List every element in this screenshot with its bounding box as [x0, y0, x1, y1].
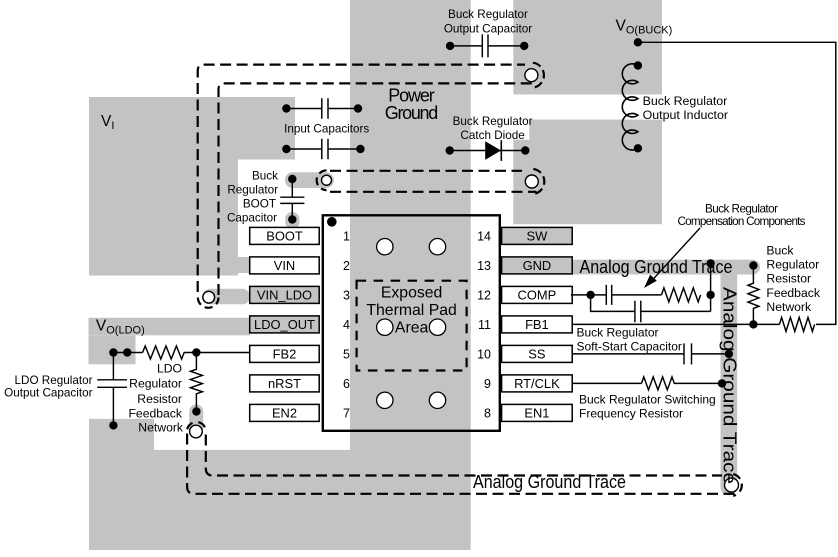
svg-text:FB2: FB2 — [273, 347, 297, 362]
svg-text:Analog Ground Trace: Analog Ground Trace — [580, 257, 733, 277]
svg-text:7: 7 — [343, 406, 350, 420]
svg-text:13: 13 — [477, 259, 491, 273]
svg-text:Buck Regulator: Buck Regulator — [453, 115, 533, 128]
svg-text:6: 6 — [343, 377, 350, 391]
svg-text:Thermal Pad: Thermal Pad — [366, 302, 456, 319]
svg-text:Resistor: Resistor — [766, 272, 811, 286]
svg-text:Frequency Resistor: Frequency Resistor — [579, 406, 683, 420]
svg-text:Feedback: Feedback — [128, 407, 182, 421]
svg-text:2: 2 — [343, 259, 350, 273]
svg-text:Feedback: Feedback — [766, 286, 820, 300]
svg-text:RT/CLK: RT/CLK — [514, 376, 560, 391]
svg-text:Regulator: Regulator — [227, 184, 278, 197]
svg-text:Buck Regulator: Buck Regulator — [705, 202, 778, 215]
svg-text:Analog Ground Trace: Analog Ground Trace — [473, 472, 626, 492]
svg-text:Analog Ground Trace: Analog Ground Trace — [720, 287, 740, 484]
svg-text:Output Capacitor: Output Capacitor — [4, 387, 92, 400]
svg-text:9: 9 — [484, 377, 491, 391]
svg-text:5: 5 — [343, 347, 350, 361]
svg-text:Exposed: Exposed — [381, 284, 442, 301]
svg-text:BOOT: BOOT — [243, 198, 276, 211]
svg-text:Area: Area — [395, 319, 429, 336]
svg-text:Buck Regulator Switching: Buck Regulator Switching — [579, 392, 716, 406]
svg-text:Catch Diode: Catch Diode — [460, 129, 524, 142]
svg-text:COMP: COMP — [518, 288, 557, 303]
svg-text:LDO_OUT: LDO_OUT — [254, 317, 315, 332]
svg-text:Capacitor: Capacitor — [227, 212, 277, 225]
svg-text:FB1: FB1 — [525, 317, 549, 332]
svg-text:EN1: EN1 — [524, 406, 549, 421]
svg-text:Regulator: Regulator — [766, 258, 819, 272]
svg-text:GND: GND — [523, 258, 552, 273]
svg-text:Regulator: Regulator — [129, 377, 182, 391]
svg-text:4: 4 — [343, 318, 350, 332]
svg-text:Ground: Ground — [385, 103, 439, 123]
svg-text:BOOT: BOOT — [266, 229, 303, 244]
svg-text:Soft-Start Capacitor: Soft-Start Capacitor — [577, 340, 682, 354]
svg-text:SW: SW — [527, 229, 549, 244]
svg-text:Buck Regulator: Buck Regulator — [643, 94, 728, 108]
svg-text:Compensation Components: Compensation Components — [678, 215, 806, 228]
svg-text:8: 8 — [484, 406, 491, 420]
svg-text:EN2: EN2 — [272, 406, 297, 421]
svg-text:LDO: LDO — [157, 362, 182, 376]
svg-text:11: 11 — [478, 318, 491, 332]
svg-text:nRST: nRST — [268, 376, 301, 391]
svg-text:SS: SS — [528, 347, 545, 362]
svg-text:Resistor: Resistor — [137, 392, 182, 406]
svg-text:Buck: Buck — [766, 243, 794, 257]
svg-text:1: 1 — [343, 229, 350, 243]
svg-text:3: 3 — [343, 288, 350, 302]
svg-text:Buck: Buck — [252, 170, 278, 183]
svg-text:Output Capacitor: Output Capacitor — [444, 22, 532, 35]
svg-text:Input Capacitors: Input Capacitors — [284, 122, 369, 135]
svg-text:Network: Network — [138, 421, 184, 435]
svg-text:Buck Regulator: Buck Regulator — [577, 326, 659, 340]
svg-text:Buck Regulator: Buck Regulator — [448, 8, 528, 21]
svg-text:12: 12 — [477, 288, 491, 302]
svg-text:14: 14 — [477, 229, 491, 243]
svg-text:10: 10 — [477, 347, 491, 361]
svg-text:Output Inductor: Output Inductor — [643, 108, 728, 122]
svg-text:Network: Network — [766, 300, 812, 314]
svg-text:LDO Regulator: LDO Regulator — [15, 374, 93, 387]
svg-text:VIN: VIN — [274, 258, 296, 273]
svg-text:VIN_LDO: VIN_LDO — [257, 288, 312, 303]
